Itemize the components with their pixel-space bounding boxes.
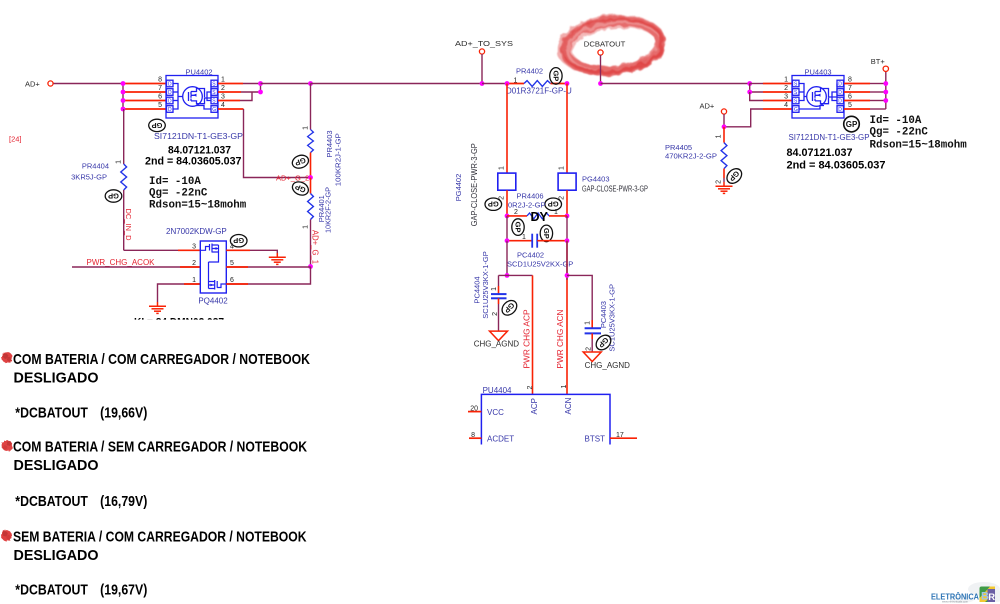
svg-text:100KR2J-1-GP: 100KR2J-1-GP — [333, 133, 342, 186]
symbol GP near PR4404 — [105, 190, 122, 202]
svg-text:7: 7 — [158, 85, 162, 92]
svg-text:5: 5 — [848, 102, 852, 109]
wire stubs PU4403 right — [844, 83, 870, 85]
wire pin3 elbow — [240, 92, 252, 101]
svg-text:1: 1 — [491, 287, 498, 291]
junction dot PG4403 top — [565, 81, 570, 86]
svg-text:1: 1 — [585, 321, 592, 325]
svg-text:3: 3 — [784, 94, 788, 101]
symbol GP circle near PU4402 — [149, 119, 166, 131]
wire stub pin1 PU4402 — [218, 83, 243, 85]
svg-text:ACP: ACP — [530, 398, 539, 414]
svg-text:470KR2J-2-GP: 470KR2J-2-GP — [665, 152, 717, 161]
svg-text:G: G — [212, 107, 216, 113]
pin letters D left PU4402 — [168, 82, 172, 114]
svg-text:SI7121DN-T1-GE3-GP: SI7121DN-T1-GE3-GP — [789, 133, 870, 142]
svg-text:3KR5J-GP: 3KR5J-GP — [71, 173, 107, 182]
junction dots left column — [121, 81, 126, 111]
wire pin1 to bus — [243, 83, 261, 85]
junction dot pin2 bus — [258, 90, 263, 95]
svg-text:GAP-CLOSE-PWR-3-GP: GAP-CLOSE-PWR-3-GP — [470, 143, 479, 226]
svg-text:SCD1U25V2KX-GP: SCD1U25V2KX-GP — [507, 260, 573, 269]
svg-text:2: 2 — [559, 196, 566, 200]
svg-text:Id= -10A: Id= -10A — [149, 176, 201, 188]
svg-text:2: 2 — [716, 180, 723, 184]
junction dot pin2 row — [747, 90, 752, 95]
wire AD+_TO_SYS down — [481, 54, 483, 84]
wire DCBATOUT down — [600, 55, 602, 84]
svg-text:PG4402: PG4402 — [454, 174, 463, 202]
wire right node down — [566, 241, 568, 395]
wire bus PU4402 to PR4403 node — [261, 83, 311, 85]
svg-text:DESLIGADO: DESLIGADO — [14, 547, 99, 564]
junction dot AD+_TO_SYS — [480, 81, 485, 86]
wire left node down to ACP branch — [506, 241, 508, 276]
svg-text:COM BATERIA / SEM CARREGADOR /: COM BATERIA / SEM CARREGADOR / NOTEBOOK — [13, 438, 307, 455]
wire node down right — [566, 216, 568, 241]
junction dot ACP branch — [505, 273, 510, 278]
svg-text:BTST: BTST — [585, 435, 606, 444]
svg-text:DESLIGADO: DESLIGADO — [14, 457, 99, 474]
svg-text:PR4404: PR4404 — [82, 162, 109, 171]
wire drop to pin3 — [750, 92, 763, 101]
svg-text:PR4406: PR4406 — [517, 192, 544, 201]
symbol GP near PQ4402 — [230, 235, 247, 247]
svg-text:10KR2F-2-GP: 10KR2F-2-GP — [323, 187, 332, 233]
pin letters S left PU4403 — [794, 82, 798, 114]
svg-text:GP: GP — [846, 120, 858, 129]
bullet scribble 3 — [1, 530, 12, 541]
svg-text:1: 1 — [716, 134, 723, 138]
svg-text:2: 2 — [585, 347, 592, 351]
svg-text:Rdson=15~18mohm: Rdson=15~18mohm — [870, 140, 968, 152]
wire stub pin3 PU4402 — [218, 100, 240, 102]
svg-text:3: 3 — [221, 94, 225, 101]
svg-text:2: 2 — [527, 386, 534, 390]
wire PQ4402 pin5 to AD+_G_1 — [226, 266, 310, 268]
pin letters D right PU4403 — [838, 82, 842, 114]
svg-text:[24]: [24] — [9, 135, 22, 144]
svg-text:2N7002KDW-GP: 2N7002KDW-GP — [166, 227, 227, 236]
wire bus DCBATOUT to right — [601, 83, 750, 85]
wire PG4403 drop — [566, 84, 568, 174]
svg-text:5: 5 — [158, 102, 162, 109]
symbol GP above PR4402 — [550, 68, 562, 85]
wire ACP branch horizontal — [499, 274, 533, 276]
svg-text:*DCBATOUT (19,67V): *DCBATOUT (19,67V) — [15, 582, 147, 599]
junction dot AD+_G_2 — [308, 175, 313, 180]
bullet scribble 1 — [2, 352, 13, 363]
svg-text:1: 1 — [784, 77, 788, 84]
wire PQ4402 pin4 to ground — [226, 250, 277, 253]
svg-text:*DCBATOUT (16,79V): *DCBATOUT (16,79V) — [15, 493, 147, 510]
svg-text:ACDET: ACDET — [487, 435, 514, 444]
svg-text:PU4404: PU4404 — [483, 386, 512, 395]
resistor PR4404 — [123, 109, 125, 164]
svg-text:4: 4 — [784, 102, 788, 109]
svg-text:AD+: AD+ — [700, 102, 715, 111]
wire PQ4402 pin1 to ground — [158, 284, 201, 302]
svg-text:17: 17 — [616, 432, 624, 439]
charger IC PU4404 box — [481, 394, 610, 444]
svg-text:8: 8 — [158, 77, 162, 84]
terminal AD+ left — [48, 81, 53, 86]
svg-text:ACN: ACN — [564, 397, 573, 414]
svg-text:AD+_G_2: AD+_G_2 — [276, 174, 309, 183]
svg-text:6: 6 — [158, 94, 162, 101]
pin BTST stub — [610, 437, 637, 439]
gap pad PG4403 — [558, 173, 576, 190]
junction dots PR4406 row — [505, 214, 510, 219]
svg-text:2: 2 — [784, 85, 788, 92]
svg-text:CHG_AGND: CHG_AGND — [585, 361, 631, 370]
wire PG4402 drop — [506, 84, 508, 174]
symbol GP near PC4404 — [499, 298, 520, 319]
svg-text:AD+_G_1: AD+_G_1 — [311, 230, 320, 265]
svg-text:Qg= -22nC: Qg= -22nC — [870, 127, 929, 139]
svg-text:D: D — [838, 99, 842, 105]
svg-text:KI = 84.DMN02.037: KI = 84.DMN02.037 — [134, 317, 224, 329]
mosfet package PU4403 outline — [792, 76, 844, 119]
svg-text:4: 4 — [230, 243, 234, 250]
svg-text:1: 1 — [116, 160, 123, 164]
svg-text:D: D — [168, 90, 172, 96]
svg-text:5: 5 — [230, 260, 234, 267]
mosfet arrow inside PU4402 — [193, 94, 197, 97]
capacitor PC4404 — [498, 275, 500, 286]
svg-text:D: D — [838, 107, 842, 113]
op-amp? no: mosfet package PU4402 outline — [166, 76, 218, 119]
wire pin2 elbow — [241, 84, 261, 93]
wire PWR CHG ACP vertical — [532, 275, 534, 394]
svg-text:PG4403: PG4403 — [582, 175, 610, 184]
svg-text:SI7121DN-T1-GE3-GP: SI7121DN-T1-GE3-GP — [154, 132, 243, 141]
svg-text:D: D — [838, 82, 842, 88]
svg-text:84.07121.037: 84.07121.037 — [787, 147, 853, 159]
junction dots BT+ column — [883, 81, 888, 103]
svg-text:3: 3 — [192, 243, 196, 250]
svg-text:PR4402: PR4402 — [516, 67, 543, 76]
wire stub pin2 PU4402 — [218, 91, 241, 93]
svg-text:R: R — [988, 592, 995, 603]
svg-text:DCBATOUT: DCBATOUT — [584, 40, 626, 49]
wire pin4 down to AD+_G_2 — [244, 109, 311, 178]
svg-text:DESLIGADO: DESLIGADO — [14, 370, 99, 387]
symbol GP near PC4403 — [593, 332, 614, 353]
transistor PQ4402 arrows — [213, 247, 217, 250]
junction dot ACN branch — [565, 273, 570, 278]
clipped text row KB = 84.DMN02.037 — [134, 317, 224, 329]
svg-text:CHG_AGND: CHG_AGND — [474, 339, 520, 348]
svg-text:PWR_CHG_ACOK: PWR_CHG_ACOK — [87, 258, 156, 267]
wire stub pin4 PU4402 — [218, 108, 244, 110]
junction dot right bus — [747, 81, 752, 86]
svg-text:7: 7 — [848, 85, 852, 92]
svg-text:1: 1 — [559, 166, 566, 170]
junction dot AD+ right — [722, 124, 727, 129]
wire ACN branch to PC4403 — [567, 275, 592, 320]
svg-text:DC_IN_D: DC_IN_D — [124, 209, 133, 242]
mosfet arrow inside PU4403 — [817, 94, 821, 97]
wire main AD+ bus left segment — [53, 83, 123, 85]
svg-text:8: 8 — [848, 77, 852, 84]
svg-text:1: 1 — [303, 126, 310, 130]
svg-text:1: 1 — [303, 225, 310, 229]
wire stub pin6 PU4402 — [123, 100, 166, 102]
wire stub pin8 PU4402 — [123, 83, 166, 85]
wire node down left — [506, 216, 508, 241]
svg-text:GAP-CLOSE-PWR-3-GP: GAP-CLOSE-PWR-3-GP — [582, 185, 648, 194]
svg-text:6: 6 — [230, 277, 234, 284]
svg-text:SEM BATERIA / COM CARREGADOR /: SEM BATERIA / COM CARREGADOR / NOTEBOOK — [13, 529, 307, 546]
svg-text:2: 2 — [514, 209, 518, 216]
svg-text:D: D — [168, 99, 172, 105]
ground at PQ4402 pin4 — [269, 253, 286, 264]
bullet scribble 2 — [2, 440, 13, 451]
scribble ellipse around DCBATOUT — [557, 12, 666, 78]
svg-text:D01R3721F-GP-U: D01R3721F-GP-U — [506, 87, 572, 96]
wire PG4402 to node — [506, 190, 508, 216]
svg-text:1: 1 — [554, 209, 558, 216]
svg-text:SC1U25V3KX-1-GP: SC1U25V3KX-1-GP — [481, 251, 490, 319]
svg-text:www.eletronicabr.com: www.eletronicabr.com — [942, 599, 969, 603]
pin letters S right PU4402 — [212, 82, 216, 114]
svg-text:2: 2 — [221, 85, 225, 92]
symbol GP below AD+_G_2 — [290, 179, 310, 197]
transistor PQ4402 outline — [200, 241, 226, 293]
symbol GP near PR4405 — [724, 166, 745, 187]
svg-text:DY: DY — [531, 210, 549, 224]
svg-text:Qg= -22nC: Qg= -22nC — [149, 188, 208, 200]
svg-text:1: 1 — [221, 77, 225, 84]
wire PQ4402 pin6 elbow to AD+_G_1 — [226, 267, 310, 285]
junction dot AD+_G_1 — [308, 264, 313, 269]
svg-text:2nd = 84.03605.037: 2nd = 84.03605.037 — [787, 160, 886, 172]
svg-text:PWR CHG ACP: PWR CHG ACP — [523, 310, 532, 369]
wire PWR_CHG_ACOK to PQ4402 pin2 — [72, 266, 200, 268]
symbol GP ovals near PC4402 — [512, 219, 524, 236]
wire bus PR4403 node to AD+_TO_SYS — [311, 83, 483, 85]
resistor PR4401 — [310, 178, 312, 194]
svg-text:2: 2 — [492, 312, 499, 316]
pin ACDET stub — [469, 437, 481, 439]
resistor PR4403 — [310, 84, 312, 130]
svg-text:AD+: AD+ — [25, 80, 40, 89]
symbol GP near PR4403 — [290, 153, 310, 170]
analog ground CHG_AGND left — [490, 331, 508, 341]
wire BT+ vertical — [885, 72, 887, 110]
wire stub pin7 PU4402 — [123, 91, 166, 93]
ground below PR4405 — [716, 182, 733, 193]
svg-text:2: 2 — [192, 260, 196, 267]
svg-text:D: D — [838, 90, 842, 96]
symbol GP pair at PR4406 — [485, 198, 502, 210]
wire left pin column vertical — [122, 84, 124, 110]
svg-text:*DCBATOUT (19,66V): *DCBATOUT (19,66V) — [15, 405, 147, 422]
junction dot PR4403 top — [308, 81, 313, 86]
junction dot pin1 bus — [258, 81, 263, 86]
wire stub PU4403 pin1 — [750, 83, 763, 85]
symbol GP circle right — [844, 116, 860, 132]
svg-text:COM BATERIA / COM CARREGADOR /: COM BATERIA / COM CARREGADOR / NOTEBOOK — [13, 351, 310, 368]
svg-text:20: 20 — [470, 406, 478, 413]
svg-text:Id= -10A: Id= -10A — [870, 115, 922, 127]
svg-text:4: 4 — [221, 102, 225, 109]
logo watermark cloud — [950, 582, 1000, 603]
svg-text:PQ4402: PQ4402 — [198, 297, 228, 306]
resistor PR4406 horizontal — [507, 215, 527, 217]
svg-text:D: D — [168, 107, 172, 113]
analog ground CHG_AGND right — [583, 352, 601, 362]
svg-text:6: 6 — [848, 94, 852, 101]
ground below PQ4402 pin1 — [149, 302, 166, 313]
svg-text:AD+_TO_SYS: AD+_TO_SYS — [455, 39, 513, 48]
svg-text:8: 8 — [471, 432, 475, 439]
wire DC_IN_D to PQ4402 pin3 — [124, 249, 201, 251]
gap pad PG4402 — [498, 173, 516, 190]
svg-text:G: G — [794, 107, 798, 113]
wire drop to pin2 — [750, 84, 763, 93]
wire bus to PR4402 — [482, 83, 507, 85]
pin VCC stub — [468, 411, 481, 413]
capacitor PC4403 — [591, 320, 593, 328]
svg-text:Rdson=15~18mohm: Rdson=15~18mohm — [149, 200, 247, 212]
svg-text:PWR CHG ACN: PWR CHG ACN — [556, 309, 565, 368]
svg-text:PC4402: PC4402 — [517, 251, 544, 260]
svg-text:PU4403: PU4403 — [804, 68, 831, 77]
svg-text:1: 1 — [561, 385, 568, 389]
svg-text:1: 1 — [499, 166, 506, 170]
svg-text:VCC: VCC — [487, 408, 504, 417]
wire PG4403 to node — [566, 190, 568, 216]
wire AD+ right to pin4 — [723, 114, 725, 127]
svg-text:PU4402: PU4402 — [185, 68, 212, 77]
junction dots PC4402 row — [505, 238, 510, 243]
junction dot PG4402 top — [505, 81, 510, 86]
svg-text:1: 1 — [522, 234, 526, 241]
svg-text:PR4405: PR4405 — [665, 143, 692, 152]
junction dot DCBATOUT — [598, 81, 603, 86]
svg-text:2nd = 84.03605.037: 2nd = 84.03605.037 — [145, 156, 242, 168]
svg-text:BT+: BT+ — [871, 57, 886, 66]
svg-text:1: 1 — [192, 277, 196, 284]
wire stub pin5 PU4402 — [123, 108, 166, 110]
svg-text:D: D — [168, 82, 172, 88]
capacitor PC4402 — [507, 240, 532, 242]
logo BR flag block — [980, 587, 996, 603]
